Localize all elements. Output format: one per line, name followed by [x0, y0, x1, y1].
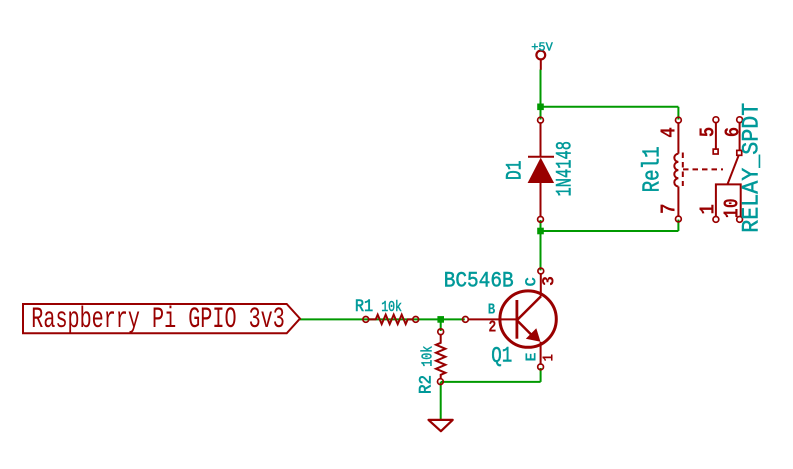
svg-text:B: B: [488, 302, 496, 319]
Q1 base pin end: [463, 317, 469, 323]
svg-text:10k: 10k: [381, 299, 402, 316]
wire GPIO label to R1 and Q1 base: [300, 318, 465, 320]
svg-text:R1: R1: [355, 297, 373, 317]
svg-text:R2: R2: [417, 375, 437, 394]
Q1 emitter pin line: [540, 342, 542, 365]
junction at D1 anode / collector net: [537, 228, 544, 235]
Rel1 pin 6 end: [737, 117, 743, 123]
wire top horizontal to relay coil pin 4: [541, 106, 679, 108]
wire down to ground: [440, 382, 442, 420]
Q1 emitter diagonal: [517, 320, 532, 335]
wire D1 anode pin to lower junction: [540, 220, 542, 231]
Rel1 pin 4 line: [677, 123, 679, 154]
wire lower horizontal to relay coil pin 7: [541, 230, 679, 232]
R1 left pin end: [363, 317, 369, 323]
Rel1 pin 4 end: [676, 117, 682, 123]
svg-text:2: 2: [488, 318, 496, 337]
svg-text:Q1: Q1: [491, 344, 512, 369]
Q1 body circle: [500, 291, 556, 347]
Q1 base pin line: [468, 318, 517, 320]
svg-text:BC546B: BC546B: [444, 269, 514, 294]
Q1 emitter pin end: [538, 364, 544, 370]
wire emitter to R2 bottom: [441, 381, 541, 383]
Q1 collector pin end: [538, 268, 544, 274]
Rel1 switch blade: [728, 155, 739, 184]
Rel1 common pole (open box): [716, 184, 741, 216]
Rel1 pin 7 end: [676, 216, 682, 222]
Q1 collector diagonal: [517, 296, 541, 320]
svg-text:E: E: [524, 353, 541, 362]
ground: [429, 420, 453, 431]
Q1 base bar: [516, 300, 519, 339]
Rel1 armature dashed horizontal link: [683, 168, 723, 170]
wire base junction to R2 top: [440, 319, 442, 331]
R1 zigzag body: [368, 315, 413, 324]
relay Rel1: [640, 103, 766, 233]
Q1 emitter arrow: [526, 328, 541, 342]
Rel1 coil: [674, 154, 678, 187]
wire Q1 emitter down: [540, 368, 542, 382]
svg-text:+5V: +5V: [531, 41, 553, 55]
svg-text:1N4148: 1N4148: [553, 141, 578, 197]
wire lower junction to Q1 collector: [540, 231, 542, 270]
R2 bottom pin end: [438, 379, 444, 385]
Rel1 pin 7 line: [677, 187, 679, 217]
Rel1 pin 5 line: [715, 122, 717, 149]
svg-text:4: 4: [658, 127, 682, 138]
wire +5V stem to top junction: [540, 70, 542, 107]
transistor Q1: [444, 268, 560, 370]
Rel1 armature dashed vertical link: [682, 153, 684, 187]
Rel1 pin 10 end: [737, 217, 743, 223]
Q1 collector pin line: [540, 274, 542, 297]
power symbol +5V: [531, 41, 553, 70]
junction at R1 / R2 / base net: [437, 316, 444, 323]
global label Raspberry Pi GPIO 3v3: [23, 303, 300, 337]
svg-text:7: 7: [658, 204, 682, 215]
svg-text:1: 1: [541, 354, 558, 362]
svg-text:5: 5: [697, 127, 721, 138]
wire junction to D1 cathode pin: [540, 107, 542, 120]
svg-text:Rel1: Rel1: [640, 146, 667, 192]
Rel1 pin 1 end: [713, 217, 719, 223]
label outline flag: [23, 304, 300, 333]
svg-text:Raspberry Pi GPIO 3v3: Raspberry Pi GPIO 3v3: [31, 303, 284, 337]
Rel1 NO contact dot: [737, 150, 742, 155]
R2 zigzag body: [436, 334, 445, 379]
R1 right pin end: [413, 317, 419, 323]
Rel1 NC contact dot: [713, 149, 718, 154]
D1 cathode bar: [528, 156, 554, 158]
Rel1 pin 5 end: [713, 117, 719, 123]
svg-text:C: C: [523, 277, 541, 287]
resistor R1: [355, 297, 419, 324]
wire relay pin 4 drop: [677, 107, 679, 120]
D1 cathode pin end: [538, 117, 544, 123]
D1 anode pin: [540, 183, 542, 217]
Rel1 pin 6 line: [739, 122, 741, 150]
svg-text:10k: 10k: [420, 346, 437, 367]
svg-text:RELAY_SPDT: RELAY_SPDT: [739, 103, 766, 233]
junction at +5V rail: [537, 104, 544, 111]
svg-text:D1: D1: [503, 161, 528, 181]
R2 top pin end: [438, 329, 444, 335]
svg-text:3: 3: [539, 276, 559, 286]
wire relay pin 7 rise: [677, 220, 679, 231]
D1 triangle: [528, 158, 555, 183]
svg-text:1: 1: [697, 204, 721, 215]
diode D1: [503, 117, 578, 222]
resistor R2: [417, 329, 446, 394]
